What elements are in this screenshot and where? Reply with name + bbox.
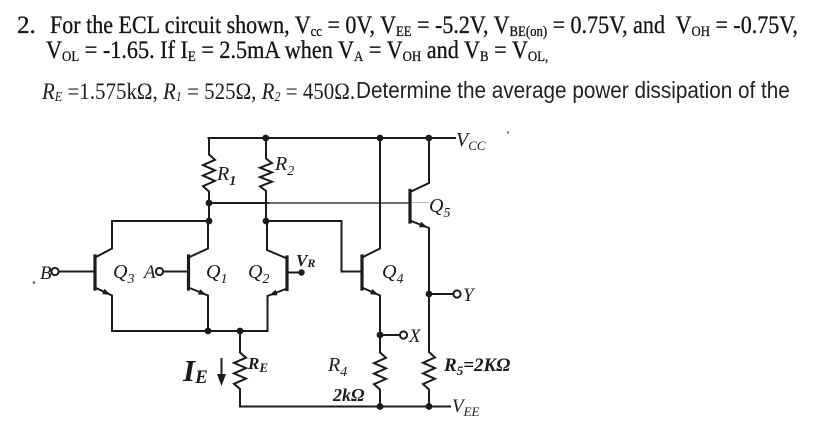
transistor Q3 <box>59 221 113 331</box>
wire Q3 collector bus <box>112 220 209 222</box>
terminal A <box>142 262 163 283</box>
svg-text:Q5: Q5 <box>429 195 450 221</box>
stray dot <box>33 281 36 284</box>
svg-text:A: A <box>142 262 156 283</box>
wire R2 node to Q4 base <box>266 221 362 272</box>
junction Q1/Q3 collector node <box>206 218 213 225</box>
svg-text:2kΩ: 2kΩ <box>332 385 365 405</box>
svg-text:R2: R2 <box>274 153 294 179</box>
svg-text:R4: R4 <box>327 354 347 380</box>
junction Q2 collector / R2 node <box>263 218 270 225</box>
terminal B <box>40 263 59 284</box>
node VEE label <box>452 396 480 419</box>
node X <box>377 326 422 347</box>
junction Q5 collector on Vcc rail <box>425 135 432 142</box>
problem text line 3 <box>42 79 355 105</box>
wire Vcc rail <box>209 137 456 139</box>
stray speck top right <box>507 131 509 133</box>
arrow IE <box>217 359 226 386</box>
svg-text:R5=2KΩ: R5=2KΩ <box>443 355 510 378</box>
svg-text:Y: Y <box>463 285 476 306</box>
label R2 <box>274 153 294 179</box>
svg-text:RE: RE <box>247 354 268 375</box>
svg-text:R1: R1 <box>216 163 236 189</box>
junction R2 top on Vcc rail <box>262 135 269 142</box>
node Vcc label <box>456 129 486 153</box>
label Q2 <box>248 261 269 287</box>
svg-text:VR: VR <box>296 251 315 270</box>
junction R1 bottom node <box>206 200 213 207</box>
svg-text:VCC: VCC <box>456 129 486 153</box>
label R1 <box>216 163 236 189</box>
svg-text:VEE: VEE <box>452 396 480 419</box>
label R4 <box>327 354 347 380</box>
wire VEE rail <box>240 406 450 408</box>
resistor R1 <box>203 138 215 203</box>
transistor Q5 <box>410 138 429 294</box>
label Q3 <box>113 261 134 287</box>
junction R5 bottom on VEE rail <box>426 403 433 410</box>
svg-text:B: B <box>40 263 52 284</box>
transistor Q2 (mirrored) <box>267 221 302 331</box>
resistor R2 <box>260 138 272 221</box>
junction Q1 emitter on bus <box>205 328 212 335</box>
junction Q4 collector on Vcc rail <box>377 135 384 142</box>
wire R1 node down <box>208 203 210 221</box>
label RE <box>247 354 268 375</box>
svg-text:IE: IE <box>182 353 208 388</box>
svg-text:Q3: Q3 <box>113 261 134 287</box>
label R4 value 2k <box>332 385 365 405</box>
node Y <box>426 285 476 306</box>
label Q4 <box>382 261 403 287</box>
junction RE top on bus <box>237 328 244 335</box>
svg-text:Q4: Q4 <box>382 261 403 287</box>
label Q5 <box>429 195 450 221</box>
svg-text:Q2: Q2 <box>248 261 269 287</box>
resistor R4 <box>374 335 386 407</box>
junction R4 bottom on VEE rail <box>377 403 384 410</box>
label IE current <box>182 353 208 388</box>
svg-text:X: X <box>408 326 422 347</box>
wire Q5 base from R1 node <box>209 202 409 204</box>
transistor Q1 <box>163 221 208 331</box>
label Q1 <box>206 261 227 287</box>
problem text line 2 <box>46 37 548 65</box>
resistor RE <box>234 331 246 407</box>
label R5 value <box>443 355 510 378</box>
node VR <box>296 251 315 276</box>
svg-text:Q1: Q1 <box>206 261 227 287</box>
problem text line 1 <box>17 12 36 40</box>
transistor Q4 <box>362 138 380 335</box>
wire emitter bus <box>112 330 268 332</box>
resistor R5 <box>423 294 435 407</box>
